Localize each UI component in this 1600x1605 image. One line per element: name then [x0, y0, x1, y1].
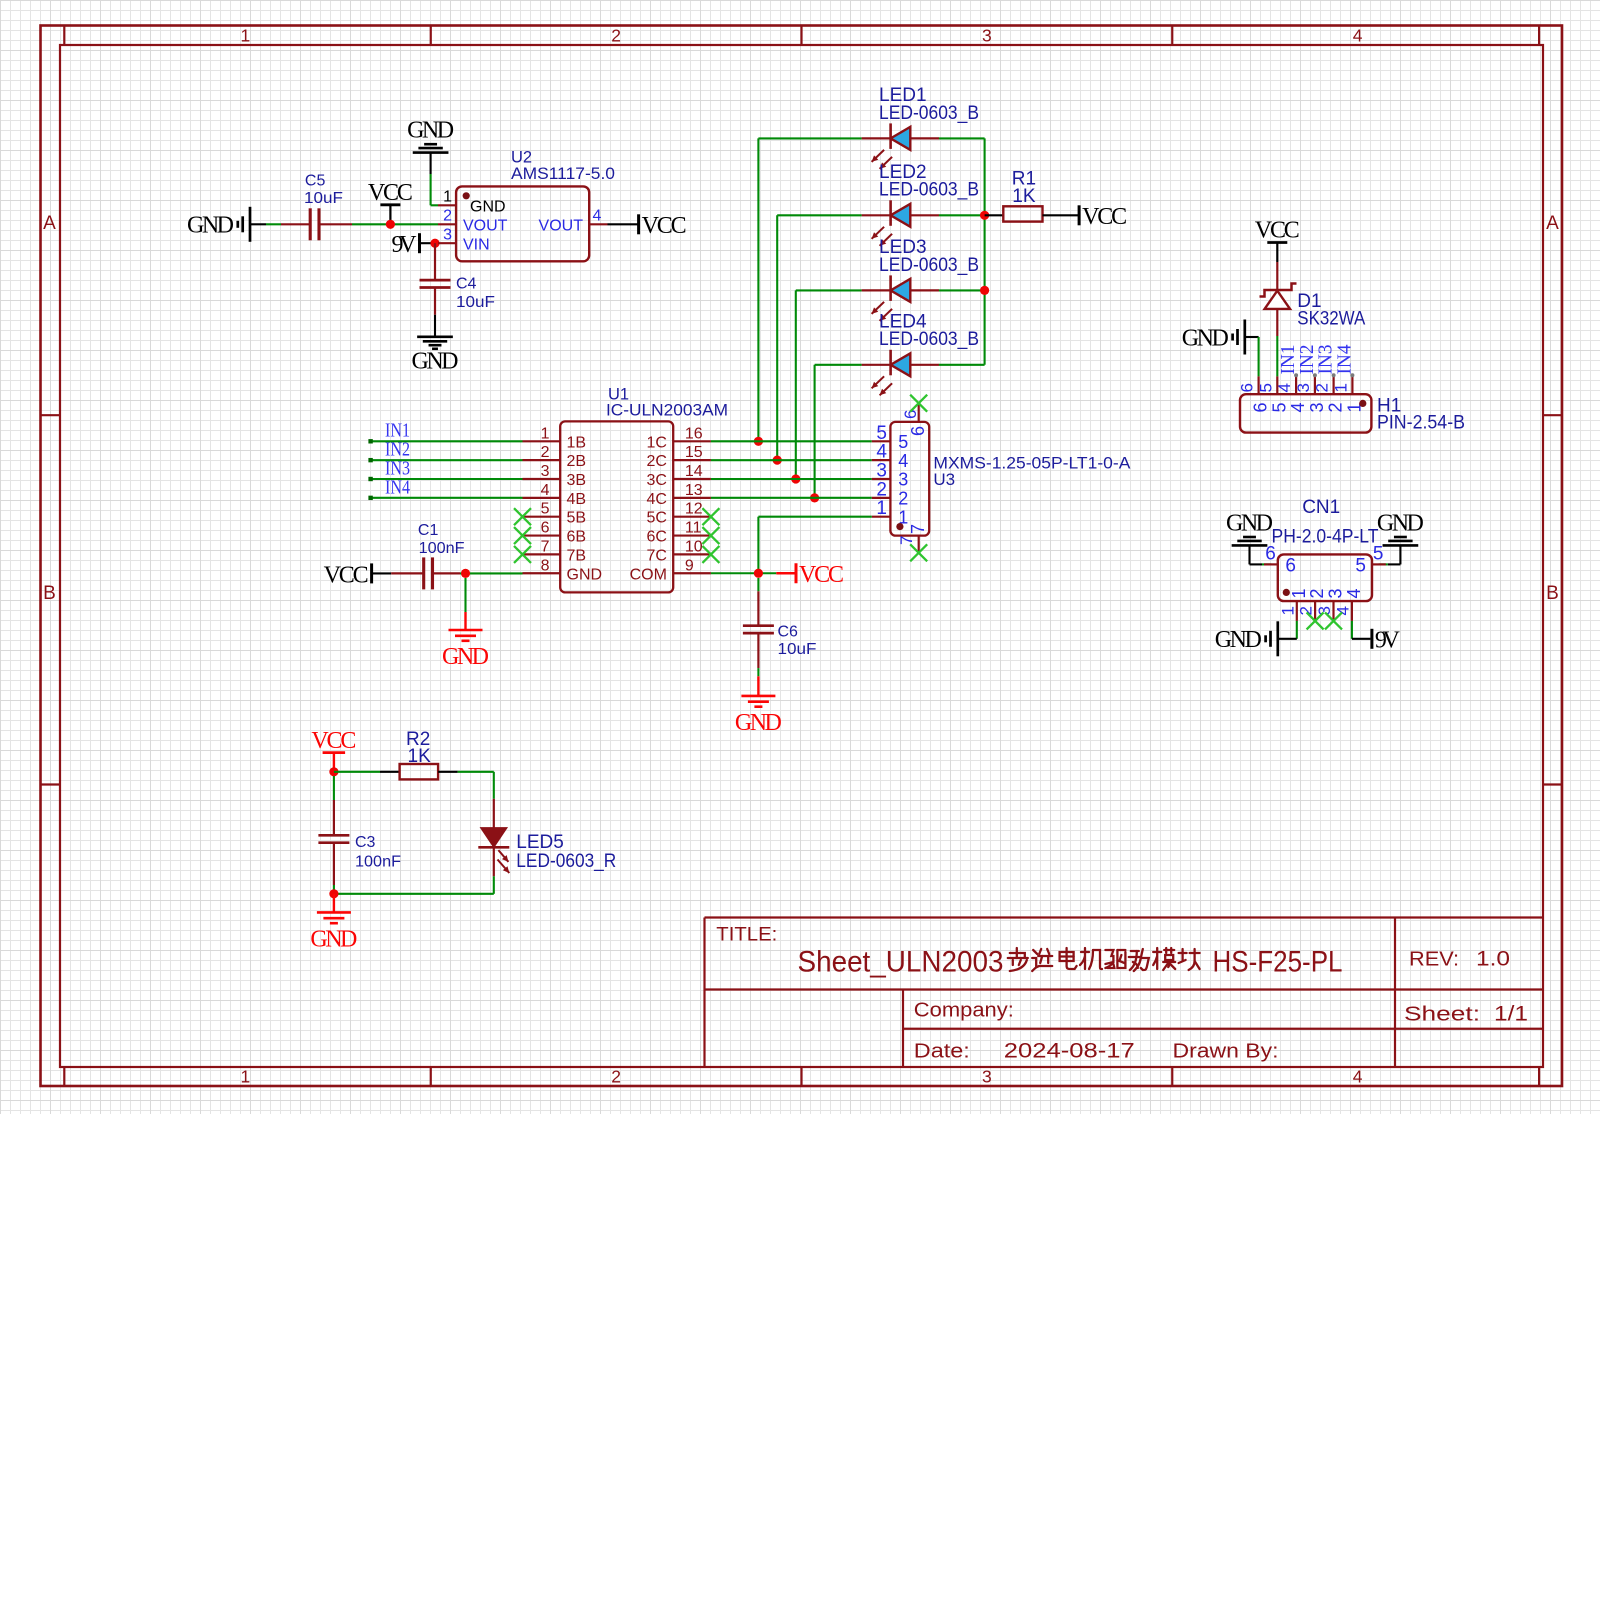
junction VCC/C5/U2 — [386, 220, 395, 229]
U1 pin 7 7B — [523, 538, 587, 564]
svg-text:TITLE:: TITLE: — [716, 925, 777, 946]
wire GND to U2 pin1 — [431, 153, 438, 206]
svg-text:5: 5 — [876, 423, 887, 444]
svg-text:1: 1 — [1278, 606, 1297, 615]
junction COM/C6/U3 — [754, 569, 763, 578]
no-connect X U3 pin6 — [910, 395, 927, 412]
label C6 10uF — [778, 623, 817, 658]
svg-text:12: 12 — [685, 501, 703, 518]
wire LED anode bus right — [939, 138, 985, 364]
svg-text:7: 7 — [541, 538, 550, 555]
wire C5 to U2 pin2 — [352, 223, 438, 225]
svg-text:VCC: VCC — [1255, 218, 1300, 244]
frame column ticks top — [64, 26, 1539, 46]
svg-text:2: 2 — [443, 208, 452, 225]
LED1 — [862, 123, 939, 168]
svg-text:6C: 6C — [646, 529, 666, 546]
svg-text:GND: GND — [407, 118, 454, 144]
svg-text:Date:: Date: — [914, 1041, 970, 1063]
wire U3 pin1 to COM junction — [758, 517, 871, 574]
capacitor C1 — [391, 557, 460, 589]
wire LED2 left to bus — [777, 215, 861, 460]
svg-text:3: 3 — [876, 461, 887, 482]
svg-text:2: 2 — [876, 479, 887, 500]
label C1 100nF — [418, 522, 465, 557]
svg-text:MXMS-1.25-05P-LT1-0-A: MXMS-1.25-05P-LT1-0-A — [933, 453, 1131, 472]
svg-text:GND: GND — [412, 348, 459, 374]
svg-text:VCC: VCC — [1082, 204, 1127, 230]
ground flag left of C5 — [187, 207, 250, 242]
wire net IN4 to U1 — [368, 496, 522, 500]
svg-text:GND: GND — [1215, 627, 1262, 653]
label LED5 LED-0603_R — [516, 832, 616, 872]
svg-text:GND: GND — [1226, 510, 1273, 536]
svg-text:1B: 1B — [567, 434, 587, 451]
wire GND to H1 pin6 — [1245, 337, 1259, 376]
IC U1 ULN2003 body — [560, 421, 673, 592]
CN1 pin 2 — [1297, 588, 1328, 620]
U3 pin 4 — [872, 442, 909, 471]
svg-text:4: 4 — [541, 482, 550, 499]
U1 pin 11 6C — [646, 520, 710, 546]
wire net IN3 to U1 — [368, 477, 522, 481]
wire U2 pin4 to VCC port — [608, 223, 638, 225]
net port 9V — [392, 232, 434, 258]
svg-text:C1: C1 — [418, 522, 439, 539]
svg-text:10: 10 — [685, 538, 703, 555]
svg-text:10uF: 10uF — [456, 294, 495, 311]
svg-text:4: 4 — [876, 442, 887, 463]
junction LED2 column — [773, 456, 782, 465]
U1 pin 10 7C — [646, 538, 710, 564]
junction LED bus LED3 — [980, 286, 989, 295]
svg-text:Drawn By:: Drawn By: — [1173, 1041, 1279, 1063]
LED5 (red) — [478, 799, 509, 877]
label U1 IC-ULN2003AM — [606, 386, 728, 420]
svg-text:4: 4 — [593, 208, 602, 225]
svg-text:14: 14 — [685, 463, 703, 480]
svg-text:2: 2 — [541, 444, 550, 461]
frame row ticks left — [41, 415, 61, 784]
wire CN1 pin1 to GND — [1278, 621, 1297, 639]
U2 pin 3 VIN — [438, 227, 490, 254]
svg-text:PH-2.0-4P-LT: PH-2.0-4P-LT — [1272, 527, 1379, 548]
svg-text:C6: C6 — [778, 623, 799, 640]
svg-text:VCC: VCC — [642, 213, 687, 239]
H1 pin 3 — [1294, 373, 1327, 412]
svg-text:B: B — [43, 583, 56, 604]
label R2 1K — [406, 729, 431, 767]
svg-text:LED-0603_B: LED-0603_B — [879, 180, 979, 201]
wire LED5 to GND rail — [334, 876, 494, 894]
svg-text:LED-0603_B: LED-0603_B — [879, 103, 979, 124]
H1 pin 2 — [1313, 373, 1346, 412]
svg-text:VCC: VCC — [311, 728, 356, 754]
H1 pin 6 — [1238, 376, 1271, 412]
svg-text:2: 2 — [1297, 606, 1316, 615]
svg-text:3C: 3C — [646, 472, 666, 489]
U2 pin 1 GND — [438, 189, 506, 216]
svg-text:Sheet:: Sheet: — [1404, 1004, 1480, 1026]
svg-text:AMS1117-5.0: AMS1117-5.0 — [511, 165, 615, 183]
svg-text:5: 5 — [898, 432, 908, 452]
svg-text:2: 2 — [611, 1067, 621, 1087]
svg-text:2B: 2B — [567, 453, 587, 470]
ground flag below C3 (red) — [310, 894, 357, 953]
power flag VCC at R2 (red) — [311, 728, 356, 772]
label H1 PIN-2.54-B — [1377, 396, 1465, 434]
svg-text:GND: GND — [735, 710, 782, 736]
svg-text:100nF: 100nF — [419, 540, 465, 557]
svg-text:16: 16 — [685, 425, 703, 442]
ground flag above CN1 pin5 — [1377, 510, 1424, 545]
junction LED bus R1 — [980, 211, 989, 220]
wire GND to CN1 pin6 — [1250, 545, 1272, 564]
svg-text:VOUT: VOUT — [539, 218, 584, 235]
net port VCC at COM (red) — [776, 562, 844, 588]
svg-text:C3: C3 — [355, 834, 376, 851]
H1 pin 1 — [1331, 373, 1364, 412]
U1 pin 4 4B — [523, 482, 587, 508]
svg-text:Sheet_ULN2003: Sheet_ULN2003 — [798, 946, 1004, 979]
svg-text:9V: 9V — [392, 232, 418, 258]
svg-text:3: 3 — [1307, 402, 1327, 412]
svg-text:Company:: Company: — [914, 1000, 1014, 1022]
frame column numbers bottom — [241, 1067, 1363, 1087]
net port VCC right of U2 — [639, 213, 687, 239]
label U2 AMS1117-5.0 — [511, 149, 615, 183]
svg-text:4: 4 — [1353, 1067, 1363, 1087]
svg-text:5: 5 — [1373, 544, 1384, 565]
U1 pin 13 4C — [646, 482, 710, 508]
svg-text:5B: 5B — [567, 510, 587, 527]
svg-text:C4: C4 — [456, 275, 477, 292]
junction C3/LED5/GND — [329, 889, 338, 898]
svg-text:GND: GND — [470, 199, 506, 216]
LED2 — [862, 200, 939, 246]
wire U1 pin14 to U3 — [711, 478, 872, 480]
CN1 pin 1 — [1278, 588, 1309, 620]
svg-text:6: 6 — [908, 426, 928, 436]
svg-text:100nF: 100nF — [355, 854, 401, 871]
svg-text:7: 7 — [897, 536, 916, 545]
junction LED1 column — [754, 437, 763, 446]
CN1 pin 3 — [1315, 588, 1346, 620]
svg-text:GND: GND — [187, 213, 234, 239]
svg-text:6: 6 — [1251, 402, 1271, 412]
wire CN1 pin4 to 9V — [1352, 621, 1371, 639]
svg-text:COM: COM — [630, 566, 667, 583]
wire LED3 left to bus — [796, 290, 862, 479]
svg-text:GND: GND — [1377, 510, 1424, 536]
label C3 100nF — [355, 834, 401, 871]
U1 pin 2 2B — [523, 444, 587, 470]
U1 pin 3 3B — [523, 463, 587, 489]
label LED4 LED-0603_B — [879, 312, 979, 351]
frame row letters left — [43, 213, 56, 604]
U3 pin 1 — [872, 498, 909, 527]
svg-text:IN4: IN4 — [385, 476, 410, 498]
label LED3 LED-0603_B — [879, 237, 979, 276]
svg-text:3: 3 — [982, 26, 992, 46]
svg-text:4: 4 — [1333, 606, 1352, 615]
svg-text:2C: 2C — [646, 453, 666, 470]
wire net IN2 to U1 — [368, 458, 522, 462]
svg-text:GND: GND — [567, 566, 603, 583]
svg-text:3B: 3B — [567, 472, 587, 489]
svg-text:7C: 7C — [646, 547, 666, 564]
svg-text:10uF: 10uF — [304, 190, 343, 207]
svg-text:GND: GND — [1182, 325, 1229, 351]
svg-text:LED-0603_R: LED-0603_R — [516, 851, 616, 872]
connector H1 body — [1240, 394, 1371, 432]
IC U2 AMS1117-5.0 body — [456, 186, 589, 261]
svg-text:1: 1 — [443, 189, 452, 206]
svg-text:B: B — [1546, 583, 1559, 604]
svg-text:HS-F25-PL: HS-F25-PL — [1213, 946, 1343, 979]
svg-text:4: 4 — [1344, 588, 1364, 598]
svg-text:2: 2 — [898, 488, 908, 508]
U1 pin 12 5C — [646, 501, 710, 527]
U3 pin 2 — [872, 479, 909, 508]
U1 pin 9 COM — [630, 557, 711, 583]
svg-text:VCC: VCC — [799, 562, 844, 588]
no-connect X U1 left pin 6 — [514, 527, 531, 544]
svg-text:15: 15 — [685, 444, 703, 461]
U2 pin 4 VOUT — [539, 208, 608, 235]
wire U1 pin16 to U3 — [711, 440, 872, 442]
svg-text:SK32WA: SK32WA — [1297, 308, 1365, 329]
resistor R2 — [334, 764, 494, 779]
wire LED1 left to bus — [758, 138, 861, 441]
wire LED4 left to bus — [815, 365, 862, 498]
junction LED3 column — [791, 474, 800, 483]
frame column numbers top — [241, 26, 1363, 46]
svg-text:VOUT: VOUT — [463, 218, 508, 235]
label CN1 PH-2.0-4P-LT — [1272, 497, 1379, 548]
wire U1 COM to VCC — [711, 572, 776, 574]
LED3 — [862, 275, 939, 321]
svg-text:5C: 5C — [646, 510, 666, 527]
svg-text:3: 3 — [541, 463, 550, 480]
svg-text:IN4: IN4 — [1333, 345, 1355, 375]
svg-text:2024-08-17: 2024-08-17 — [1004, 1040, 1135, 1063]
svg-text:7B: 7B — [567, 547, 587, 564]
svg-text:U3: U3 — [933, 470, 955, 489]
U1 pin 8 GND — [523, 557, 603, 583]
wire R2 to LED5 — [493, 772, 495, 799]
svg-text:4C: 4C — [646, 491, 666, 508]
U1 pin 16 1C — [646, 425, 710, 451]
wire U1 pin13 to U3 — [711, 497, 872, 499]
svg-text:6: 6 — [1238, 383, 1257, 392]
svg-text:9: 9 — [685, 557, 694, 574]
svg-text:IC-ULN2003AM: IC-ULN2003AM — [606, 402, 728, 420]
svg-text:1K: 1K — [1012, 186, 1036, 207]
sheet border outer frame — [41, 26, 1563, 1087]
U3 pin 6 top — [901, 404, 928, 436]
capacitor C5 — [281, 208, 352, 240]
U1 pin 6 6B — [523, 520, 587, 546]
svg-text:1: 1 — [876, 498, 887, 519]
svg-text:4B: 4B — [567, 491, 587, 508]
no-connect X U1 right pin 10 — [702, 546, 719, 563]
U1 pin 15 2C — [646, 444, 710, 470]
svg-text:1: 1 — [241, 26, 251, 46]
no-connect X CN1 pin2 — [1307, 612, 1324, 629]
svg-text:A: A — [1546, 213, 1559, 234]
wire GND flag to C5 — [250, 223, 281, 225]
CN1 pin 5 — [1355, 544, 1385, 577]
svg-text:PIN-2.54-B: PIN-2.54-B — [1377, 412, 1465, 433]
H1 pin 5 — [1256, 376, 1289, 412]
label D1 SK32WA — [1297, 291, 1365, 329]
svg-text:1C: 1C — [646, 434, 666, 451]
svg-text:LED-0603_B: LED-0603_B — [879, 329, 979, 350]
U3 pin1 marker dot — [896, 523, 903, 530]
net port VCC right of R1 — [1079, 204, 1127, 230]
svg-text:A: A — [43, 213, 56, 234]
net port VCC left of C1 — [324, 562, 392, 588]
svg-text:1: 1 — [1331, 383, 1350, 392]
svg-text:4: 4 — [898, 451, 908, 471]
svg-text:LED-0603_B: LED-0603_B — [879, 255, 979, 276]
frame row letters right — [1546, 213, 1559, 604]
diode D1 SK32WA — [1260, 262, 1297, 336]
svg-text:1: 1 — [241, 1067, 251, 1087]
svg-text:9V: 9V — [1375, 628, 1401, 654]
wire net IN1 to U1 — [368, 439, 522, 443]
svg-text:5: 5 — [1256, 383, 1275, 392]
svg-text:2: 2 — [1313, 383, 1332, 392]
svg-text:6: 6 — [541, 520, 550, 537]
wire GND to CN1 pin5 — [1379, 545, 1401, 564]
U3 pin 7 bottom — [897, 524, 928, 552]
capacitor C6 — [743, 578, 774, 668]
svg-text:1: 1 — [541, 425, 550, 442]
no-connect X U3 pin7 — [910, 544, 927, 561]
power flag VCC above D1 — [1255, 218, 1300, 263]
svg-text:REV:: REV: — [1409, 949, 1459, 971]
svg-text:3: 3 — [1326, 588, 1346, 598]
U3 pin 3 — [872, 461, 909, 490]
svg-text:C5: C5 — [305, 172, 326, 189]
svg-text:VCC: VCC — [368, 180, 413, 206]
svg-text:2: 2 — [1326, 402, 1346, 412]
svg-text:8: 8 — [541, 557, 550, 574]
CN1 pin 4 — [1333, 588, 1364, 620]
sheet border inner frame — [60, 45, 1543, 1067]
ground flag below C1 — [442, 578, 489, 670]
svg-text:1/1: 1/1 — [1494, 1003, 1528, 1026]
label C4 10uF — [456, 275, 495, 311]
power flag VCC at U2 input — [368, 180, 413, 225]
junction 9V/C4/U2 — [430, 239, 439, 248]
H1 pin1 marker dot — [1359, 400, 1366, 407]
junction LED4 column — [810, 493, 819, 502]
label LED1 LED-0603_B — [879, 85, 979, 124]
grid background — [0, 0, 1600, 1114]
svg-text:GND: GND — [442, 644, 489, 670]
svg-text:4: 4 — [1275, 383, 1294, 392]
svg-text:13: 13 — [685, 482, 703, 499]
no-connect X U1 left pin 7 — [514, 546, 531, 563]
ground flag above CN1 pin6 — [1226, 510, 1273, 545]
wire D1 to H1 pin5 — [1276, 336, 1278, 376]
connector CN1 body — [1278, 554, 1372, 601]
capacitor C3 — [318, 776, 349, 894]
U1 pin 14 3C — [646, 463, 710, 489]
net port 9V at CN1 — [1372, 628, 1401, 654]
svg-text:VCC: VCC — [324, 562, 369, 588]
resistor R1 — [985, 206, 1078, 221]
svg-text:4: 4 — [1353, 26, 1363, 46]
svg-text:11: 11 — [685, 520, 702, 537]
svg-text:1: 1 — [1289, 588, 1309, 598]
frame column ticks bottom — [64, 1067, 1539, 1086]
svg-text:2: 2 — [1307, 588, 1327, 598]
svg-text:VIN: VIN — [463, 237, 490, 254]
label C5 10uF — [304, 172, 343, 207]
LED4 — [862, 350, 939, 396]
svg-text:6B: 6B — [567, 529, 587, 546]
svg-text:6: 6 — [1265, 544, 1276, 565]
svg-text:2: 2 — [611, 26, 621, 46]
capacitor C4 — [420, 243, 451, 315]
svg-text:3: 3 — [1294, 383, 1313, 392]
svg-text:7: 7 — [908, 524, 928, 534]
no-connect X U1 right pin 12 — [702, 508, 719, 525]
svg-text:GND: GND — [310, 926, 357, 952]
ground flag left of H1 — [1182, 320, 1245, 355]
no-connect X CN1 pin3 — [1325, 612, 1342, 629]
U2 pin1 marker dot — [463, 192, 470, 199]
title block frame — [705, 918, 1544, 1068]
ground below C6 (red) — [735, 668, 782, 736]
svg-text:6: 6 — [1285, 555, 1296, 576]
U1 pin 1 1B — [523, 425, 587, 451]
CN1 pin1 marker dot — [1283, 589, 1290, 596]
svg-text:4: 4 — [1288, 402, 1308, 412]
no-connect X U1 left pin 5 — [514, 508, 531, 525]
ground below C4 — [412, 315, 459, 375]
svg-text:10uF: 10uF — [778, 641, 817, 658]
frame row ticks right — [1543, 415, 1562, 784]
junction VCC/R2/C3 — [329, 767, 338, 776]
ground flag below CN1 pin1 — [1215, 621, 1278, 656]
CN1 pin 6 — [1264, 544, 1296, 577]
svg-text:5: 5 — [1355, 555, 1366, 576]
svg-text:1.0: 1.0 — [1476, 948, 1510, 971]
connector U3 body — [890, 422, 929, 536]
svg-text:CN1: CN1 — [1302, 497, 1340, 518]
wire U1 pin15 to U3 — [711, 459, 872, 461]
U2 pin 2 VOUT — [438, 208, 508, 235]
U3 pin 5 — [872, 423, 909, 452]
U1 pin 5 5B — [523, 501, 587, 527]
svg-text:5: 5 — [541, 501, 550, 518]
svg-text:1K: 1K — [408, 746, 432, 767]
junction C1/GND/U1 — [461, 569, 470, 578]
H1 pin 4 — [1275, 373, 1308, 412]
label MXMS-1.25-05P-LT1-0-A U3 — [933, 453, 1131, 489]
title CJK text 步进电机驱动模块 — [1008, 948, 1200, 971]
svg-text:3: 3 — [898, 470, 908, 490]
svg-text:3: 3 — [1315, 606, 1334, 615]
label LED2 LED-0603_B — [879, 162, 979, 201]
label R1 1K — [1012, 169, 1036, 207]
wire C1 to U1 pin8 — [460, 572, 523, 574]
